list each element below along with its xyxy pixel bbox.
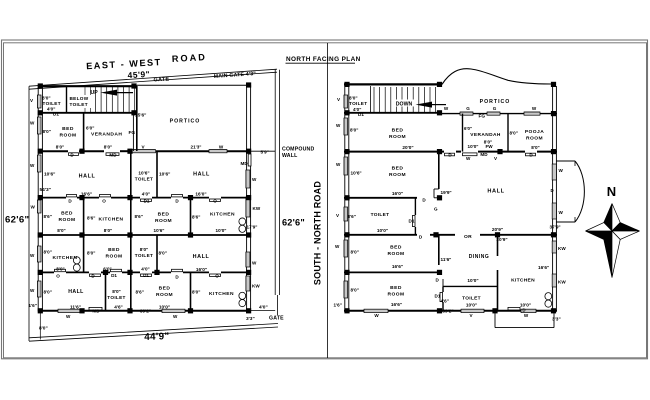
svg-text:15'6": 15'6"	[135, 113, 146, 119]
window G portico floor	[460, 112, 473, 115]
compound wall right double line	[274, 70, 276, 296]
svg-text:O: O	[56, 274, 60, 279]
svg-text:ROOM: ROOM	[389, 134, 406, 140]
door gap MD right wall	[248, 154, 251, 166]
svg-text:6'0": 6'0"	[86, 126, 94, 131]
svg-text:D1: D1	[143, 273, 149, 278]
svg-text:D1: D1	[358, 112, 364, 117]
svg-text:10'6": 10'6"	[159, 172, 170, 178]
svg-text:MD: MD	[241, 161, 249, 166]
connector bottom wall to compound	[251, 310, 276, 312]
door leaf O wall y197 hall2	[210, 199, 221, 201]
svg-text:62'6": 62'6"	[5, 215, 29, 226]
svg-text:54'3": 54'3"	[40, 187, 51, 193]
window toilet2 left wall right plan	[344, 207, 348, 221]
door leaf O wall y272	[55, 269, 66, 271]
svg-text:W: W	[30, 288, 35, 293]
svg-text:TOILET: TOILET	[462, 295, 481, 301]
svg-text:37'9": 37'9"	[550, 224, 561, 229]
svg-text:VERANDAH: VERANDAH	[470, 132, 501, 138]
svg-text:10'0": 10'0"	[159, 305, 170, 310]
svg-text:1'6": 1'6"	[334, 302, 342, 307]
svg-text:8'6": 8'6"	[44, 214, 52, 219]
window hall left wall	[37, 155, 41, 172]
svg-text:8'0": 8'0"	[87, 251, 95, 256]
svg-text:TOILET: TOILET	[349, 101, 367, 106]
svg-text:39'2": 39'2"	[140, 309, 151, 314]
svg-text:MD: MD	[480, 152, 488, 157]
left plan wall y197	[38, 197, 66, 199]
window KW right wall	[246, 197, 250, 217]
left plan top wall	[38, 85, 137, 87]
svg-text:W: W	[466, 156, 471, 161]
window KW2 right wall	[246, 276, 250, 291]
right plan portico floor wall	[442, 113, 557, 115]
svg-text:W: W	[66, 314, 71, 319]
svg-text:ROOM: ROOM	[387, 251, 404, 257]
svg-text:3'3": 3'3"	[552, 317, 561, 323]
door leaf D1 wall y272 second	[141, 274, 152, 276]
svg-text:TOILET: TOILET	[43, 101, 61, 106]
svg-text:16'6": 16'6"	[538, 265, 549, 270]
svg-text:MD: MD	[109, 152, 117, 157]
wall toilet-stair divider	[66, 86, 68, 113]
window W kitchen bottom	[521, 309, 536, 312]
window hall2 left wall	[37, 281, 41, 297]
svg-text:W: W	[30, 121, 35, 126]
svg-text:8'0": 8'0"	[192, 290, 200, 295]
svg-text:4'6": 4'6"	[114, 305, 123, 310]
left plan stair-block bottom wall	[38, 112, 137, 114]
svg-text:W: W	[335, 244, 340, 249]
window toilet left wall right plan	[344, 95, 348, 108]
svg-text:ROOM: ROOM	[155, 218, 172, 224]
door leaf MD bottom wall	[89, 307, 102, 310]
svg-text:6'0": 6'0"	[103, 266, 111, 271]
window toilet left wall	[37, 95, 41, 108]
svg-text:W: W	[374, 313, 379, 318]
svg-text:8'0": 8'0"	[351, 250, 359, 255]
svg-text:10'0": 10'0"	[377, 228, 388, 233]
svg-text:O: O	[102, 199, 106, 204]
circles sink kitchen right plan	[545, 293, 552, 300]
svg-text:FG: FG	[129, 130, 136, 136]
door leaf at D wall y151	[69, 153, 79, 156]
circles sink kitchen row D	[73, 257, 80, 264]
right plan wall y234	[344, 234, 417, 236]
row D toilet left wall	[130, 235, 132, 272]
svg-text:5'9": 5'9"	[261, 150, 269, 155]
svg-text:4'0": 4'0"	[259, 305, 268, 311]
svg-text:ROOM: ROOM	[156, 292, 173, 298]
row E bed-kitchen wall	[190, 272, 192, 310]
svg-text:3'3": 3'3"	[246, 316, 255, 322]
stair treads right plan	[373, 87, 375, 112]
svg-text:8'6": 8'6"	[135, 214, 143, 219]
toilet block row B left wall	[130, 151, 132, 198]
svg-text:ROOM: ROOM	[58, 217, 75, 223]
svg-text:COMPOUND: COMPOUND	[282, 147, 314, 153]
left plan portico top edge	[137, 84, 250, 86]
svg-text:PORTICO: PORTICO	[480, 99, 511, 105]
svg-text:D1: D1	[111, 273, 117, 278]
svg-text:39'2": 39'2"	[442, 309, 453, 314]
svg-text:DINING: DINING	[469, 254, 490, 260]
svg-text:W: W	[559, 168, 564, 173]
window bed2 left wall right plan	[344, 157, 348, 175]
svg-text:BED: BED	[158, 212, 170, 218]
sheet border outer	[2, 40, 648, 359]
columns right plan	[344, 82, 349, 87]
svg-text:G: G	[493, 106, 497, 111]
circles sink kitchen row E	[239, 292, 246, 299]
right plan outer right wall	[552, 86, 554, 312]
door leaf D1 wall y272	[111, 269, 122, 271]
svg-text:10'6": 10'6"	[138, 171, 149, 176]
svg-text:UP: UP	[91, 90, 99, 96]
connector wall to compound	[251, 150, 275, 152]
window KW kitchen right wall upper	[552, 241, 556, 253]
svg-text:8'0": 8'0"	[351, 288, 359, 293]
bay window right plan	[557, 161, 585, 222]
svg-text:10'0": 10'0"	[466, 302, 477, 307]
svg-text:8'6": 8'6"	[192, 214, 200, 219]
svg-text:ROOM: ROOM	[105, 254, 122, 260]
left plan bottom wall	[38, 310, 250, 312]
svg-text:8'0": 8'0"	[140, 247, 149, 252]
window bay W lower	[552, 203, 556, 219]
svg-text:SOUTH - NORTH ROAD: SOUTH - NORTH ROAD	[313, 181, 323, 285]
window bed4 left wall right plan	[344, 281, 348, 298]
svg-text:W: W	[444, 106, 449, 111]
door leaf D wall y272	[90, 274, 101, 276]
svg-text:TOILET: TOILET	[135, 177, 153, 182]
svg-text:HALL: HALL	[193, 172, 210, 178]
svg-text:G: G	[434, 206, 438, 211]
svg-text:8'0": 8'0"	[44, 290, 52, 295]
wall stairs right / portico left	[136, 86, 138, 151]
svg-text:TOILET: TOILET	[107, 295, 125, 300]
toilet block row B right wall	[156, 151, 158, 198]
toilet row F left wall	[442, 286, 444, 292]
svg-text:44'9": 44'9"	[144, 331, 170, 343]
svg-text:BED: BED	[390, 285, 402, 291]
stair left edge right plan	[370, 86, 372, 112]
door leaf D pooja	[526, 153, 536, 156]
hall wall jog	[434, 188, 439, 190]
svg-text:20'0": 20'0"	[402, 145, 413, 150]
svg-text:8'0": 8'0"	[44, 250, 52, 255]
svg-text:8'0": 8'0"	[104, 145, 112, 150]
svg-text:8'0": 8'0"	[56, 266, 64, 271]
svg-text:TOILET: TOILET	[135, 253, 153, 258]
window bedroom2 left wall	[37, 200, 41, 213]
svg-text:4'0": 4'0"	[141, 266, 149, 271]
svg-text:16'6": 16'6"	[391, 302, 402, 307]
svg-text:HALL: HALL	[487, 189, 504, 195]
right plan bottom wall	[344, 310, 557, 312]
stair direction arrow left plan	[101, 90, 134, 96]
svg-text:KW: KW	[252, 284, 260, 289]
svg-text:D1: D1	[144, 199, 150, 204]
label DOWN	[392, 100, 416, 107]
right plan wall y197	[344, 197, 417, 199]
svg-text:KITCHEN: KITCHEN	[209, 291, 234, 297]
window W right wall	[246, 170, 250, 188]
door leaf at MD wall y151	[106, 153, 119, 156]
svg-text:8'6": 8'6"	[87, 215, 95, 220]
sheet border inner	[4, 43, 647, 358]
svg-text:16'0": 16'0"	[196, 267, 207, 272]
window W in wall y151	[209, 150, 227, 153]
svg-text:BED: BED	[390, 245, 402, 251]
row D toilet right wall	[156, 235, 158, 272]
svg-text:W: W	[219, 145, 224, 150]
svg-text:W: W	[173, 314, 178, 319]
svg-text:10'0": 10'0"	[216, 228, 227, 233]
row C wall x83	[83, 198, 85, 235]
window bed left wall right plan	[344, 118, 348, 135]
window bedroom left wall	[37, 117, 41, 134]
plot boundary bottom line	[29, 324, 278, 338]
left plan wall y151	[38, 150, 68, 152]
svg-text:8'0": 8'0"	[57, 228, 65, 233]
svg-text:8'0": 8'0"	[43, 129, 51, 134]
dining-toilet wall	[443, 285, 497, 287]
pooja left wall	[507, 114, 509, 152]
svg-text:KW: KW	[558, 279, 566, 284]
svg-text:FG: FG	[479, 113, 486, 118]
svg-text:KITCHEN: KITCHEN	[210, 212, 235, 218]
svg-text:20'9": 20'9"	[496, 237, 507, 242]
svg-text:BED: BED	[392, 128, 404, 134]
door leaf D wall y272 third	[172, 269, 183, 271]
svg-text:10'0": 10'0"	[467, 278, 478, 283]
svg-text:BED: BED	[392, 166, 404, 172]
row D wall x83	[83, 235, 85, 272]
svg-text:POOJA: POOJA	[525, 129, 544, 135]
circles sink kitchen row C	[239, 218, 246, 225]
right plan bed3 right wall	[438, 235, 440, 265]
svg-text:KITCHEN: KITCHEN	[99, 217, 124, 223]
right plan stair-block bottom wall	[344, 112, 442, 114]
door leaf D wall y197	[67, 195, 77, 197]
svg-text:TOILET: TOILET	[70, 102, 88, 107]
right plan wall y151	[344, 151, 444, 153]
svg-text:62'6": 62'6"	[282, 218, 305, 228]
columns left plan	[38, 83, 43, 88]
svg-text:17'9": 17'9"	[247, 224, 258, 229]
svg-text:8'6": 8'6"	[348, 214, 356, 219]
verandah left wall	[462, 114, 464, 152]
window bay W upper	[552, 164, 556, 180]
svg-text:16'6": 16'6"	[81, 191, 92, 196]
road label EAST - WEST ROAD	[86, 52, 208, 71]
svg-text:8'0": 8'0"	[350, 128, 358, 133]
svg-text:8'0": 8'0"	[112, 289, 121, 294]
panel divider line	[327, 43, 329, 358]
svg-text:10'6": 10'6"	[351, 171, 362, 176]
right plan wall y272	[344, 271, 441, 273]
compass star	[586, 204, 640, 278]
door leaf MD wall y151 right plan	[463, 153, 478, 156]
svg-text:HALL: HALL	[79, 174, 96, 180]
stair direction arrow right plan	[416, 102, 447, 108]
svg-text:16'0": 16'0"	[392, 191, 403, 196]
kitchen left wall right plan	[497, 235, 499, 256]
svg-text:16'6": 16'6"	[392, 264, 403, 269]
kitchen wash protrusion	[494, 312, 496, 328]
svg-text:10'0": 10'0"	[468, 144, 479, 149]
svg-text:BED: BED	[61, 211, 73, 217]
svg-text:O: O	[215, 274, 219, 279]
right plan outer left wall	[344, 84, 346, 312]
right plan toilet right wall	[414, 198, 416, 215]
plot boundary left line	[28, 86, 30, 341]
svg-text:ROAD: ROAD	[172, 52, 208, 64]
left plan wall y235	[38, 234, 250, 236]
svg-text:BELOW: BELOW	[70, 96, 89, 101]
svg-text:1'6": 1'6"	[29, 303, 37, 308]
door leaf O wall y272 hall	[210, 274, 221, 276]
svg-text:KITCHEN: KITCHEN	[511, 277, 535, 283]
svg-text:W: W	[559, 210, 564, 215]
svg-text:GATE: GATE	[269, 316, 284, 322]
door gap D kitchen bottom	[508, 307, 520, 310]
svg-text:BED: BED	[62, 126, 74, 132]
door leaf D1 toilet right plan	[412, 216, 415, 227]
left plan wall y272	[38, 271, 54, 273]
door leaf O wall y197	[100, 195, 111, 197]
door leaf D wall y197 right	[172, 195, 183, 197]
left plan outer left wall	[37, 86, 39, 312]
right plan top wall	[344, 83, 442, 85]
wall bedroom-verandah divider	[83, 113, 85, 151]
row C wall x190	[190, 198, 192, 235]
svg-text:BED: BED	[159, 285, 171, 291]
window W bottom wall right	[162, 309, 185, 312]
svg-text:MD: MD	[92, 308, 100, 313]
svg-text:W: W	[30, 253, 35, 258]
gate post in compound wall	[276, 295, 278, 315]
svg-text:FW: FW	[486, 144, 494, 149]
left plan outer right wall	[246, 85, 248, 312]
svg-text:G: G	[466, 106, 470, 111]
svg-text:TOILET: TOILET	[371, 212, 390, 218]
door leaf D1 wall y197	[141, 199, 152, 201]
svg-text:ROOM: ROOM	[389, 172, 406, 178]
row C wall x130	[130, 198, 132, 235]
svg-text:21'3": 21'3"	[191, 145, 202, 150]
svg-text:W: W	[31, 205, 36, 210]
svg-text:19'9": 19'9"	[441, 190, 452, 195]
svg-text:11'6": 11'6"	[70, 305, 81, 310]
svg-text:11'6": 11'6"	[441, 257, 452, 262]
svg-text:10'6": 10'6"	[154, 228, 165, 233]
window W bottom right plan	[364, 309, 388, 312]
window W bottom wall left	[58, 309, 80, 312]
plot boundary top line	[29, 69, 277, 86]
window V in wall y151	[132, 150, 156, 153]
window V bottom right plan	[461, 309, 484, 312]
svg-text:D: D	[551, 188, 554, 193]
svg-text:W: W	[252, 177, 257, 182]
svg-text:8'0": 8'0"	[349, 95, 358, 100]
svg-text:8'0": 8'0"	[56, 145, 64, 150]
svg-text:20'9": 20'9"	[492, 227, 503, 232]
svg-text:D1: D1	[53, 112, 59, 117]
svg-text:16'0": 16'0"	[195, 191, 206, 196]
svg-text:DOWN: DOWN	[396, 101, 413, 107]
svg-text:WALL: WALL	[282, 153, 298, 159]
right plan hall left wall upper	[438, 152, 440, 189]
svg-text:N: N	[607, 184, 616, 199]
door leaf D1 toilet row F	[440, 293, 443, 302]
stair treads left plan	[95, 87, 97, 112]
svg-text:KW: KW	[558, 246, 566, 251]
window W portico floor	[524, 112, 540, 115]
svg-text:O: O	[213, 199, 217, 204]
window G2 portico floor	[487, 112, 500, 115]
svg-text:W: W	[532, 106, 537, 111]
svg-text:8'0": 8'0"	[104, 228, 112, 233]
row E hall-toilet wall	[105, 272, 107, 310]
svg-text:6'0": 6'0"	[464, 126, 472, 131]
svg-text:HALL: HALL	[68, 289, 84, 295]
svg-text:VERANDAH: VERANDAH	[91, 132, 122, 138]
svg-text:D1: D1	[409, 219, 415, 224]
row E toilet-bed wall	[130, 272, 132, 310]
svg-text:8'0": 8'0"	[531, 145, 539, 150]
svg-text:ROOM: ROOM	[387, 292, 404, 298]
window bed3 left wall right plan	[344, 240, 348, 257]
svg-text:8'6": 8'6"	[136, 290, 144, 295]
svg-text:ROOM: ROOM	[526, 136, 543, 142]
svg-text:NORTH FACING PLAN: NORTH FACING PLAN	[286, 56, 361, 63]
svg-text:8'0": 8'0"	[159, 251, 167, 256]
svg-text:ROOM: ROOM	[59, 133, 76, 139]
svg-text:W: W	[336, 162, 341, 167]
window W2 right wall	[246, 252, 250, 267]
svg-text:8'0": 8'0"	[42, 95, 51, 100]
svg-text:8'0": 8'0"	[510, 131, 518, 136]
svg-text:PORTICO: PORTICO	[170, 119, 201, 125]
svg-text:10'6": 10'6"	[44, 172, 55, 178]
door leaf D wall y151 right plan	[445, 153, 455, 156]
svg-text:4'6": 4'6"	[441, 298, 449, 303]
window kitchen left wall	[37, 246, 41, 262]
window KW kitchen right wall lower	[552, 274, 556, 287]
right plan portico curved edge	[442, 69, 551, 85]
svg-text:BED: BED	[108, 247, 120, 253]
svg-text:4'0": 4'0"	[142, 191, 150, 196]
svg-text:W: W	[252, 261, 257, 266]
svg-text:D: D	[522, 307, 525, 312]
svg-text:OR: OR	[464, 234, 472, 240]
verandah right wall with FG	[132, 113, 134, 151]
svg-text:KW: KW	[253, 206, 261, 211]
svg-text:W: W	[524, 313, 529, 318]
svg-text:W: W	[336, 123, 341, 128]
svg-text:HALL: HALL	[193, 254, 210, 260]
svg-text:W: W	[30, 163, 35, 168]
